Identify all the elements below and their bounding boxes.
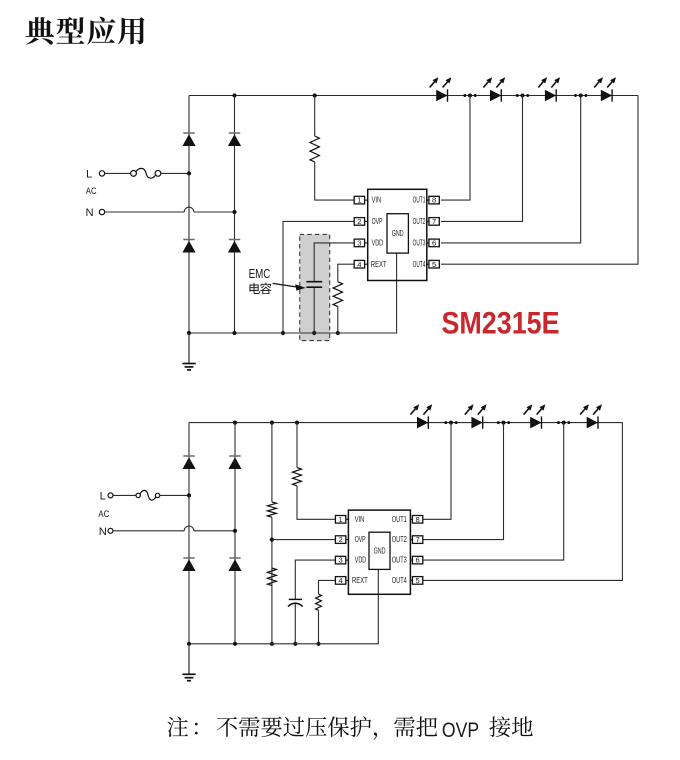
wire VDD pin 3 to capacitor <box>314 243 354 281</box>
node capacitor C2 on bottom rail <box>293 642 297 646</box>
svg-text:8: 8 <box>432 196 436 205</box>
diode D10 (bridge upper right, circuit 2) <box>229 455 240 457</box>
pin 3 box of U1 <box>354 239 364 247</box>
wire OUT1 riser <box>441 96 470 201</box>
diode D3 (bridge lower left) <box>183 239 194 241</box>
LED D6 with light arrows <box>490 90 501 102</box>
node top rail / VIN resistor branch (circuit 2) <box>295 421 299 425</box>
svg-text:EMC: EMC <box>249 266 271 281</box>
pin 3 box of U2 <box>335 556 345 564</box>
pin 6 box of U2 <box>412 556 422 564</box>
pin 1 box of U2 <box>335 516 345 524</box>
wire fuse to bridge node (circuit 2) <box>160 494 189 496</box>
svg-text:2: 2 <box>338 535 342 544</box>
svg-text:8: 8 <box>415 515 419 524</box>
wire OUT3 riser <box>441 96 581 243</box>
node L junction on branch 1 <box>187 171 191 175</box>
svg-text:OUT3: OUT3 <box>392 556 407 565</box>
pin 2 box of U2 <box>335 536 345 544</box>
pin 5 box of U1 <box>429 260 439 268</box>
resistor R2 (REXT set resistor) <box>333 282 342 307</box>
LED D5 with light arrows <box>436 90 447 102</box>
svg-text:REXT: REXT <box>352 576 368 585</box>
wire divider middle segment <box>271 517 273 644</box>
svg-text:N: N <box>99 526 107 538</box>
svg-text:VIN: VIN <box>355 515 365 524</box>
capacitor C1 (EMC capacitor) <box>306 281 322 283</box>
pin 2 box of U1 <box>354 218 364 226</box>
terminal circle N (circuit 2) <box>108 528 113 533</box>
svg-text:OVP: OVP <box>372 217 383 226</box>
svg-text:4: 4 <box>338 576 342 585</box>
ground symbol (circuit 1) <box>188 333 190 364</box>
node junction top rail / VIN resistor branch <box>313 93 317 97</box>
svg-text:OVP: OVP <box>355 535 366 544</box>
svg-text:SM2315E: SM2315E <box>442 304 560 340</box>
fuse F2 <box>136 493 140 497</box>
wire IC GND lead to bottom rail <box>189 253 397 333</box>
resistor R3 (OVP divider upper) <box>267 502 276 517</box>
diode D1 (bridge upper left) <box>183 132 194 134</box>
LED D7 with light arrows <box>545 90 556 102</box>
wire right edge down to OUT4 pin 5 <box>441 96 638 265</box>
node top rail / branch 2 (circuit 2) <box>233 421 237 425</box>
resistor R1 (VIN dropper) <box>310 136 319 162</box>
wire VIN branch lower segment to pin 1 (circuit 2) <box>297 486 335 520</box>
diode D12 (bridge lower right, circuit 2) <box>229 557 240 559</box>
wire OUT1 riser (circuit 2) <box>423 423 451 520</box>
wire REXT pin 4 to resistor R6 <box>319 580 336 594</box>
ellipsis dots and node after LED D14 <box>497 421 500 424</box>
svg-text:OVP: OVP <box>442 719 479 742</box>
svg-text:6: 6 <box>415 556 419 565</box>
arrow pointing to EMC capacitor <box>273 283 297 287</box>
diode D2 (bridge upper right) <box>229 132 240 134</box>
wire right edge down to OUT4 pin 5 (circuit 2) <box>423 423 623 581</box>
pin 7 box of U1 <box>429 218 439 226</box>
svg-text:1: 1 <box>338 515 342 524</box>
node N junction (circuit 2) <box>233 529 237 533</box>
EMC capacitor dashed highlight box <box>300 234 330 340</box>
ellipsis dots and node after LED D5 <box>463 94 466 97</box>
wire fuse to bridge node <box>161 172 189 174</box>
wire VIN branch upper segment (circuit 2) <box>296 423 298 468</box>
svg-text:OUT1: OUT1 <box>392 515 407 524</box>
terminal circle L <box>99 171 104 176</box>
label 电容 (capacitor) <box>249 283 271 295</box>
wire L to fuse (circuit 2) <box>113 494 136 496</box>
wire bridge branch 2 vertical <box>234 96 236 334</box>
svg-text:L: L <box>86 168 92 180</box>
pin 4 box of U1 <box>354 260 364 268</box>
wire IC GND lead to bottom rail (circuit 2) <box>189 569 378 643</box>
driver IC U2 body <box>348 510 410 594</box>
wire divider upper segment <box>271 423 273 502</box>
svg-text:OUT4: OUT4 <box>392 576 407 585</box>
ground symbol (circuit 2) <box>188 644 190 675</box>
wire L to fuse <box>105 172 131 174</box>
node bottom rail / branch 1 <box>187 331 191 335</box>
pin 6 box of U1 <box>429 239 439 247</box>
resistor R6 (REXT set resistor, circuit 2) <box>316 594 322 610</box>
wire VIN branch upper segment <box>314 96 316 137</box>
svg-text:OUT4: OUT4 <box>413 260 426 269</box>
pin 8 box of U1 <box>429 196 439 204</box>
svg-text:OUT2: OUT2 <box>413 217 426 226</box>
wire VIN branch lower segment to pin 1 <box>315 162 355 200</box>
wire top rail circuit 2 <box>189 422 622 424</box>
title text 典型应用 <box>26 17 145 45</box>
svg-text:3: 3 <box>357 239 361 248</box>
svg-text:7: 7 <box>415 535 419 544</box>
IC U1 inner GND block <box>387 214 408 253</box>
wire N to bridge with crossover hop (circuit 2) <box>113 530 184 532</box>
terminal circle N <box>99 209 104 214</box>
fuse F1 <box>131 171 137 177</box>
wire OVP pin 2 to ground rail <box>283 221 354 333</box>
node bottom rail / branch 2 <box>232 331 236 335</box>
wire bridge branch 1 vertical (circuit 2) <box>188 423 190 644</box>
svg-text:7: 7 <box>432 217 436 226</box>
svg-text:REXT: REXT <box>371 260 387 269</box>
node resistor R6 on bottom rail <box>316 642 320 646</box>
resistor R5 (VIN dropper, circuit 2) <box>293 468 302 486</box>
svg-text:2: 2 <box>357 217 361 226</box>
wire bridge branch 1 vertical <box>188 96 190 334</box>
svg-text:GND: GND <box>392 229 404 238</box>
svg-text:OUT3: OUT3 <box>413 239 426 248</box>
diode D11 (bridge lower left, circuit 2) <box>183 557 194 559</box>
node top rail / OVP divider branch <box>270 421 274 425</box>
pin 1 box of U1 <box>354 196 364 204</box>
IC U2 inner GND block <box>369 532 390 569</box>
node junction top rail / bridge branch 2 <box>232 93 236 97</box>
wire OUT2 riser (circuit 2) <box>423 423 504 540</box>
node OVP branch on bottom rail <box>281 331 285 335</box>
wire OUT2 riser <box>441 96 523 222</box>
wire VDD pin 3 to capacitor C2 <box>295 560 335 599</box>
svg-text:GND: GND <box>374 546 386 555</box>
svg-text:3: 3 <box>338 556 342 565</box>
svg-text:AC: AC <box>98 509 109 519</box>
svg-text:VDD: VDD <box>355 556 367 565</box>
node bottom rail / branch 2 (circuit 2) <box>233 642 237 646</box>
svg-text:1: 1 <box>357 196 361 205</box>
LED D16 with light arrows <box>587 417 598 429</box>
wire capacitor C1 to bottom rail <box>313 288 315 333</box>
pin 5 box of U2 <box>412 577 422 585</box>
LED D8 with light arrows <box>601 90 612 102</box>
svg-text:L: L <box>100 490 106 502</box>
op-amp/driver IC U1 body <box>368 189 427 280</box>
wire OVP tap to pin 2 <box>272 539 336 541</box>
pin 7 box of U2 <box>412 536 422 544</box>
wire capacitor C2 to bottom rail <box>294 604 296 644</box>
diode D4 (bridge lower right) <box>229 239 240 241</box>
node divider on bottom rail <box>270 642 274 646</box>
LED D15 with light arrows <box>530 417 541 429</box>
wire top rail (bridge output to LED string) <box>189 95 638 97</box>
node N junction on branch 2 <box>232 210 236 214</box>
ellipsis dots and node after LED D15 <box>557 421 560 424</box>
ellipsis dots and node after LED D7 <box>574 94 577 97</box>
LED D14 with light arrows <box>471 417 482 429</box>
wire OUT3 riser (circuit 2) <box>423 423 564 560</box>
svg-text:AC: AC <box>86 186 97 196</box>
wire bridge branch 2 vertical (circuit 2) <box>234 423 236 644</box>
diode D9 (bridge upper left, circuit 2) <box>183 455 194 457</box>
wire N to bridge with crossover hop <box>105 211 184 213</box>
node L junction (circuit 2) <box>187 493 191 497</box>
svg-text:N: N <box>86 207 94 219</box>
LED D13 with light arrows <box>417 417 428 429</box>
resistor R4 (OVP divider lower) <box>267 568 276 586</box>
note text 注：不需要过压保护，需把 OVP 接地 <box>167 716 532 739</box>
svg-text:VIN: VIN <box>372 196 382 205</box>
pin 8 box of U2 <box>412 516 422 524</box>
svg-text:5: 5 <box>432 260 436 269</box>
svg-text:OUT1: OUT1 <box>413 196 426 205</box>
node OVP tap <box>270 538 274 542</box>
node bottom rail / branch 1 (circuit 2) <box>187 642 191 646</box>
svg-text:4: 4 <box>357 260 361 269</box>
wire resistor R2 to bottom rail <box>337 307 339 334</box>
capacitor C2 (VDD bypass) <box>289 598 302 600</box>
svg-text:5: 5 <box>415 576 419 585</box>
node resistor R2 on bottom rail <box>336 331 340 335</box>
ellipsis dots and node after LED D6 <box>516 94 519 97</box>
svg-text:OUT2: OUT2 <box>392 535 407 544</box>
node capacitor C1 on bottom rail <box>312 331 316 335</box>
wire resistor R6 to bottom rail <box>318 610 320 644</box>
terminal circle L (circuit 2) <box>108 493 113 498</box>
svg-text:6: 6 <box>432 239 436 248</box>
pin 4 box of U2 <box>335 577 345 585</box>
svg-text:VDD: VDD <box>372 239 384 248</box>
ellipsis dots and node after LED D13 <box>444 421 447 424</box>
wire REXT pin 4 to resistor R2 <box>338 264 354 282</box>
